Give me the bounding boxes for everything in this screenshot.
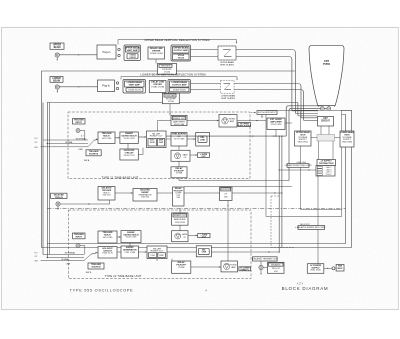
svg-text:V165 V175: V165 V175 bbox=[124, 155, 136, 157]
svg-text:V183 V184: V183 V184 bbox=[175, 222, 186, 224]
svg-text:BEAM: BEAM bbox=[53, 79, 60, 82]
svg-text:OUT: OUT bbox=[201, 156, 206, 158]
svg-text:TYPE 22 TIME-BASE UNIT: TYPE 22 TIME-BASE UNIT bbox=[104, 274, 141, 278]
svg-text:AMP: AMP bbox=[231, 266, 236, 269]
svg-text:HORIZ: HORIZ bbox=[230, 264, 237, 266]
svg-text:TRIG CF: TRIG CF bbox=[272, 268, 281, 270]
svg-text:EXTERNAL: EXTERNAL bbox=[65, 252, 76, 255]
svg-text:EXT HORIZ INPUT: EXT HORIZ INPUT bbox=[258, 112, 277, 114]
svg-text:INPUT: INPUT bbox=[76, 237, 83, 239]
svg-text:VERT AMP: VERT AMP bbox=[127, 49, 139, 52]
svg-text:SWP: SWP bbox=[159, 255, 164, 257]
svg-text:V193B: V193B bbox=[176, 173, 183, 175]
svg-text:Plug-In: Plug-In bbox=[103, 51, 112, 54]
svg-text:V800 V814: V800 V814 bbox=[298, 141, 309, 143]
svg-text:SIGNAL: SIGNAL bbox=[61, 258, 69, 261]
svg-text:V193B: V193B bbox=[178, 267, 185, 269]
svg-text:V850 V864: V850 V864 bbox=[342, 141, 353, 143]
svg-text:EXT: EXT bbox=[34, 138, 37, 140]
svg-text:V1124: V1124 bbox=[178, 57, 185, 60]
svg-text:B601: B601 bbox=[338, 268, 344, 270]
svg-text:VERT PLATES: VERT PLATES bbox=[220, 63, 234, 66]
svg-text:TRIG IN: TRIG IN bbox=[55, 197, 63, 199]
svg-text:TYPE 21 TIME-BASE UNIT: TYPE 21 TIME-BASE UNIT bbox=[101, 175, 138, 179]
svg-text:OUTPUT AMP: OUTPUT AMP bbox=[174, 49, 189, 52]
svg-text:V1284 V1294: V1284 V1294 bbox=[151, 87, 165, 89]
svg-text:V145 V155: V145 V155 bbox=[124, 138, 136, 140]
svg-text:SW B: SW B bbox=[86, 272, 92, 274]
svg-text:BEAM: BEAM bbox=[54, 46, 61, 49]
svg-text:V161 V193: V161 V193 bbox=[124, 252, 136, 254]
svg-text:V14 V24: V14 V24 bbox=[103, 195, 112, 197]
svg-text:RUNUP CCT: RUNUP CCT bbox=[150, 136, 164, 138]
svg-text:V1254 V1274: V1254 V1274 bbox=[128, 90, 141, 92]
svg-text:BLOCK DIAGRAM: BLOCK DIAGRAM bbox=[282, 286, 329, 291]
svg-text:V314 V324: V314 V324 bbox=[271, 124, 282, 126]
svg-text:EXTERNAL: EXTERNAL bbox=[76, 137, 87, 140]
svg-text:OUTPUT AMP: OUTPUT AMP bbox=[172, 84, 187, 87]
svg-text:V1074: V1074 bbox=[129, 56, 136, 59]
svg-text:DISTRIBUTION: DISTRIBUTION bbox=[319, 163, 334, 165]
svg-text:T5550: T5550 bbox=[323, 62, 331, 66]
svg-text:GATE: GATE bbox=[182, 233, 188, 236]
svg-text:AMPLIFIER: AMPLIFIER bbox=[174, 218, 186, 221]
svg-text:HORIZ PLATES: HORIZ PLATES bbox=[238, 124, 252, 127]
svg-text:V1334: V1334 bbox=[168, 101, 175, 103]
svg-text:V173 V183: V173 V183 bbox=[174, 138, 185, 140]
svg-text:SIGNAL: SIGNAL bbox=[65, 141, 73, 144]
svg-text:LOWER BEAM VERTICAL DEFLECT: LOWER BEAM VERTICAL DEFLECTION SYSTEM bbox=[140, 73, 206, 77]
svg-text:AMP: AMP bbox=[230, 120, 235, 123]
svg-text:DELAYED: DELAYED bbox=[271, 263, 281, 266]
svg-text:HORIZ: HORIZ bbox=[229, 119, 236, 121]
svg-text:V600 V620: V600 V620 bbox=[310, 270, 321, 272]
svg-text:VERT AMP: VERT AMP bbox=[129, 84, 141, 87]
svg-text:LINE: LINE bbox=[66, 263, 71, 265]
svg-text:CAP: CAP bbox=[159, 141, 164, 144]
svg-text:INPUT: INPUT bbox=[76, 122, 83, 124]
svg-text:SWEEP OUT: SWEEP OUT bbox=[174, 215, 187, 217]
svg-text:A 17 4: A 17 4 bbox=[297, 282, 304, 285]
svg-text:INT: INT bbox=[35, 142, 38, 144]
svg-text:TYPE 555 OSCILLOSCOPE: TYPE 555 OSCILLOSCOPE bbox=[70, 289, 134, 293]
svg-text:TRIGGER: TRIGGER bbox=[165, 95, 175, 97]
svg-text:GATE: GATE bbox=[182, 153, 188, 156]
svg-text:V1084 V1094: V1084 V1094 bbox=[150, 53, 164, 55]
svg-text:V34 V44: V34 V44 bbox=[141, 197, 150, 199]
svg-text:LOCKOUT: LOCKOUT bbox=[221, 189, 231, 191]
svg-text:LINE: LINE bbox=[78, 149, 83, 151]
svg-text:TRIGGER: TRIGGER bbox=[161, 66, 171, 68]
svg-text:V145 V155: V145 V155 bbox=[126, 237, 138, 239]
svg-text:V45 V135: V45 V135 bbox=[102, 138, 112, 140]
svg-text:-150 V: -150 V bbox=[326, 174, 332, 176]
svg-text:SOURCE: SOURCE bbox=[91, 267, 101, 269]
svg-text:V165 V175: V165 V175 bbox=[102, 253, 114, 255]
svg-text:DELAYED SWEEP MOD ONLY: DELAYED SWEEP MOD ONLY bbox=[297, 226, 326, 229]
svg-text:LINE: LINE bbox=[200, 139, 205, 141]
svg-text:CIRCUIT: CIRCUIT bbox=[321, 120, 331, 122]
svg-text:VERT PLATES: VERT PLATES bbox=[221, 97, 235, 100]
svg-text:SWEEP OUT: SWEEP OUT bbox=[173, 118, 186, 120]
svg-text:EXT: EXT bbox=[34, 253, 37, 255]
svg-text:V1304 V1324: V1304 V1324 bbox=[173, 90, 186, 92]
svg-text:DELAYED TRIGGER OUT: DELAYED TRIGGER OUT bbox=[252, 258, 277, 261]
svg-text:V183 V184: V183 V184 bbox=[174, 124, 185, 126]
svg-text:V45 V135: V45 V135 bbox=[103, 237, 113, 239]
svg-text:SOURCE: SOURCE bbox=[89, 153, 99, 155]
svg-text:SW A: SW A bbox=[84, 159, 90, 162]
svg-text:LINE: LINE bbox=[202, 252, 207, 254]
svg-text:Plug-In: Plug-In bbox=[102, 85, 111, 88]
svg-text:INT: INT bbox=[35, 256, 38, 258]
svg-text:UPPER BEAM VERTICAL DEFLECT: UPPER BEAM VERTICAL DEFLECTION SYSTEM bbox=[144, 38, 210, 42]
svg-text:CONNECTIONS TO ALL CKTS: CONNECTIONS TO ALL CKTS bbox=[285, 164, 313, 167]
svg-text:HORIZ PL: HORIZ PL bbox=[241, 270, 250, 272]
